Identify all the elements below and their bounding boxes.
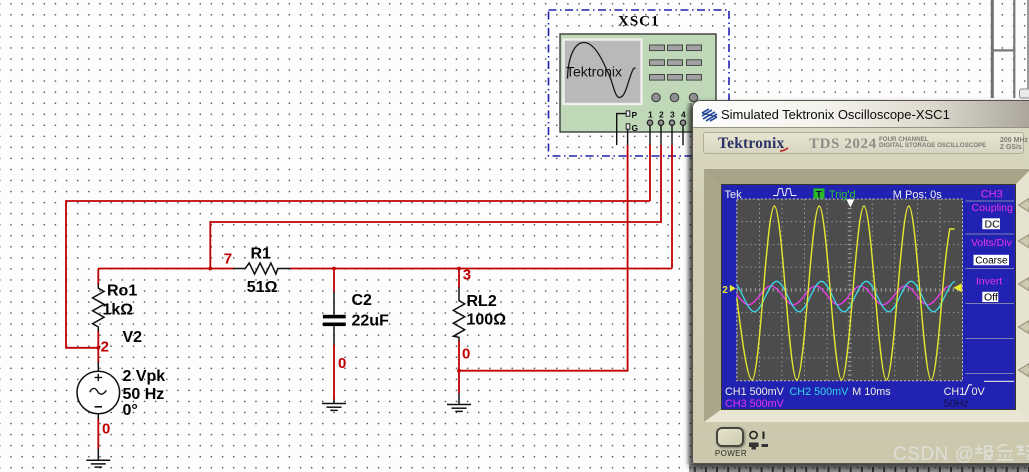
svg-text:DC: DC [985,218,1001,230]
svg-text:CH2 500mV: CH2 500mV [790,386,850,398]
capacitor C2 [323,292,389,346]
XSC1 button grid 3x3 [650,45,702,80]
resistor R1 [233,246,290,296]
graticule center tick lines [737,288,963,292]
svg-text:Invert: Invert [976,276,1002,288]
graticule grid dashed lines [737,199,963,381]
wire pin G to ground rail [459,145,628,371]
watermark [893,443,1029,466]
small window corner behind scope top right [1020,89,1029,98]
CRT screen [722,185,1015,409]
svg-text:2: 2 [101,338,109,355]
XSC1 pin terminals [647,120,685,125]
CH2 cyan trace [737,281,955,311]
svg-text:2 Vpk: 2 Vpk [123,368,166,385]
trigger position marker [847,200,855,208]
bottom readout rows [725,385,986,410]
junction node 7 [208,251,232,271]
wire V2 bottom to ground [97,418,99,450]
svg-text:100Ω: 100Ω [467,312,507,329]
svg-text:Ro1: Ro1 [107,283,137,300]
wire top rail (node 2 net) [66,201,650,348]
svg-text:2: 2 [659,110,664,120]
right menu [971,202,1013,304]
XSC1 dashed selection border [549,10,730,156]
power O/I icons [747,429,773,453]
svg-text:Trig'd: Trig'd [829,189,856,201]
svg-text:P: P [632,110,638,120]
XSC1 pin P box and label [626,111,630,116]
junction C2 top [332,267,336,271]
svg-text:2: 2 [722,285,728,296]
svg-text:Tek: Tek [725,189,743,201]
svg-text:50 Hz: 50 Hz [123,386,165,403]
wire C2 bottom to ground [333,345,335,401]
ground below RL2 [447,393,471,411]
net label 0 below RL2 [462,346,470,363]
wire RL2 bottom to ground [458,341,460,394]
gray bus wire vertical 1 [991,0,994,98]
CRT background [722,185,1015,409]
svg-text:CH3: CH3 [981,189,1003,201]
CH1 yellow trace [737,206,955,380]
svg-text:Volts/Div: Volts/Div [971,237,1013,249]
svg-text:1: 1 [648,110,653,120]
svg-text:C2: C2 [352,292,373,309]
trigger level right marker [953,283,962,292]
wire Ro1 top lead [97,269,99,285]
svg-text:T: T [816,189,822,200]
wire pin3 riser [671,145,673,269]
svg-text:3: 3 [463,267,471,284]
svg-text:M Pos: 0s: M Pos: 0s [893,189,942,201]
svg-text:Off: Off [984,292,998,304]
svg-text:1kΩ: 1kΩ [103,301,134,318]
ground below C2 [322,400,346,411]
svg-text:51Ω: 51Ω [247,279,278,296]
power button [716,427,744,447]
bezel arrow buttons [1017,185,1029,445]
junction RL2 bottom ground node [457,369,461,373]
wire C2 top lead [333,269,335,293]
gray bus wire horizontal [991,49,1015,51]
ground below V2 [86,449,110,467]
wire pin1 to top rail [649,145,651,201]
svg-text:0: 0 [338,355,346,372]
screen bevel well [704,169,1029,422]
CH3 magenta trace [737,286,951,305]
svg-text:0: 0 [102,421,110,438]
resistor RL2 [453,287,506,341]
front panel [693,128,1029,465]
shadow strip under window bottom [689,464,1029,472]
svg-text:3: 3 [670,110,675,120]
net label 0 below V2 [102,421,110,438]
resistor Ro1 [93,283,138,332]
gray bus wire vertical 2 [1013,0,1015,98]
svg-text:50Hz: 50Hz [944,398,969,409]
svg-text:Tektronix: Tektronix [566,64,622,80]
wire pin2 to node 7 [210,145,661,269]
right menu separators [966,201,1015,374]
svg-text:0V: 0V [972,386,986,398]
svg-text:G: G [632,123,639,133]
svg-text:V2: V2 [123,329,143,346]
source V2 [77,329,165,419]
net label 0 below C2 [338,355,346,372]
XSC1 pin stubs [628,125,683,145]
svg-text:CH3 500mV: CH3 500mV [725,398,785,409]
XSC1 display [564,40,642,105]
junction node 3 (RL2 top) [457,267,471,284]
junction node 2 (V2 top) [96,338,109,355]
brand header strip [703,132,1024,155]
svg-text:RL2: RL2 [467,293,497,310]
svg-text:7: 7 [224,251,232,268]
left shadow of window [686,103,692,464]
svg-text:Coarse: Coarse [975,256,1008,267]
wire main horizontal rail right of R1 [290,268,672,270]
svg-text:22uF: 22uF [352,313,390,330]
svg-text:Coupling: Coupling [972,202,1014,214]
svg-text:M 10ms: M 10ms [852,386,891,398]
XSC1 display sine curve [568,43,636,98]
svg-text:XSC1: XSC1 [618,14,660,30]
screen header row [725,188,1003,201]
svg-text:CH1 500mV: CH1 500mV [725,386,785,398]
svg-text:R1: R1 [251,246,272,263]
gray bus wire vertical 3 (edge) [1027,0,1029,98]
oscilloscope window [692,100,1029,464]
XSC1 knobs [652,93,698,102]
wire Ro1 bottom to V2 [97,331,99,363]
XSC1 body [560,34,716,132]
wire main horizontal rail left of R1 [98,268,234,270]
graticule area [737,199,963,381]
wire RL2 top lead [458,269,460,288]
svg-text:0: 0 [462,346,470,363]
title bar [693,101,1029,128]
svg-text:CH1: CH1 [944,386,966,398]
svg-text:0°: 0° [123,402,138,419]
oscilloscope XSC1 symbol [549,10,730,156]
XSC1 pin G box and label [626,124,630,129]
XSC1 probe P stub wire (black elbow) [617,114,626,145]
